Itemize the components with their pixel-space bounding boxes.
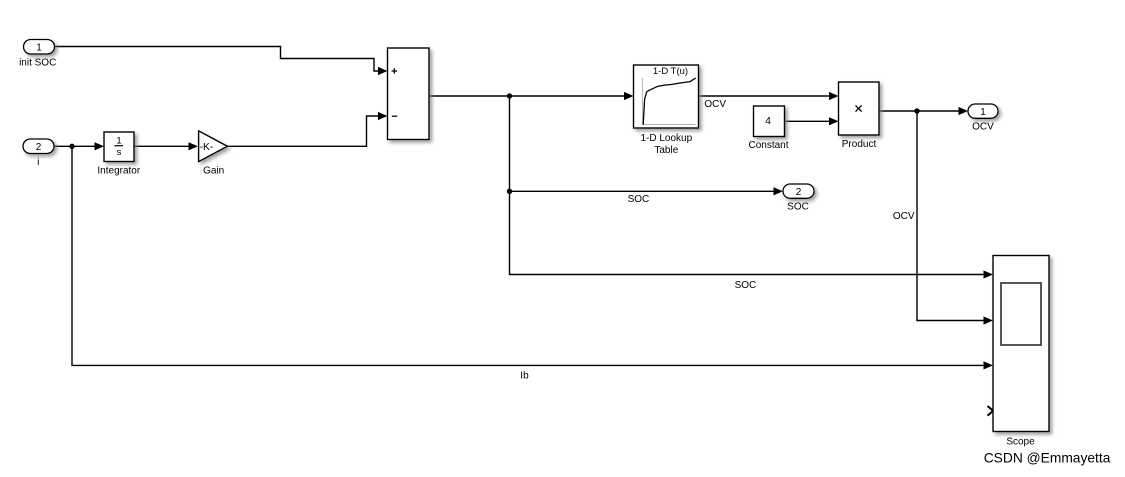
svg-text:Constant: Constant: [748, 140, 788, 151]
svg-text:CSDN @Emmayetta: CSDN @Emmayetta: [984, 451, 1111, 466]
svg-text:Ib: Ib: [520, 370, 529, 381]
svg-text:OCV: OCV: [893, 211, 915, 222]
svg-text:Product: Product: [842, 139, 877, 150]
svg-text:SOC: SOC: [735, 280, 757, 291]
svg-text:1: 1: [116, 136, 121, 147]
svg-text:1: 1: [980, 107, 986, 118]
svg-text:s: s: [117, 147, 122, 158]
svg-text:1-D T(u): 1-D T(u): [653, 66, 688, 77]
svg-text:i: i: [37, 157, 39, 168]
svg-text:OCV: OCV: [972, 122, 994, 133]
svg-text:2: 2: [36, 142, 42, 153]
svg-text:SOC: SOC: [787, 202, 809, 213]
svg-text:1-D Lookup: 1-D Lookup: [640, 133, 692, 144]
svg-text:Scope: Scope: [1006, 437, 1035, 448]
svg-text:Gain: Gain: [203, 165, 224, 176]
svg-text:1: 1: [36, 43, 42, 54]
svg-text:Table: Table: [654, 145, 678, 156]
svg-text:-K-: -K-: [200, 142, 214, 153]
svg-text:2: 2: [796, 187, 802, 198]
svg-text:Integrator: Integrator: [97, 165, 140, 176]
svg-text:SOC: SOC: [628, 194, 650, 205]
svg-text:init SOC: init SOC: [19, 57, 56, 68]
svg-text:4: 4: [765, 115, 771, 127]
svg-text:OCV: OCV: [704, 99, 726, 110]
